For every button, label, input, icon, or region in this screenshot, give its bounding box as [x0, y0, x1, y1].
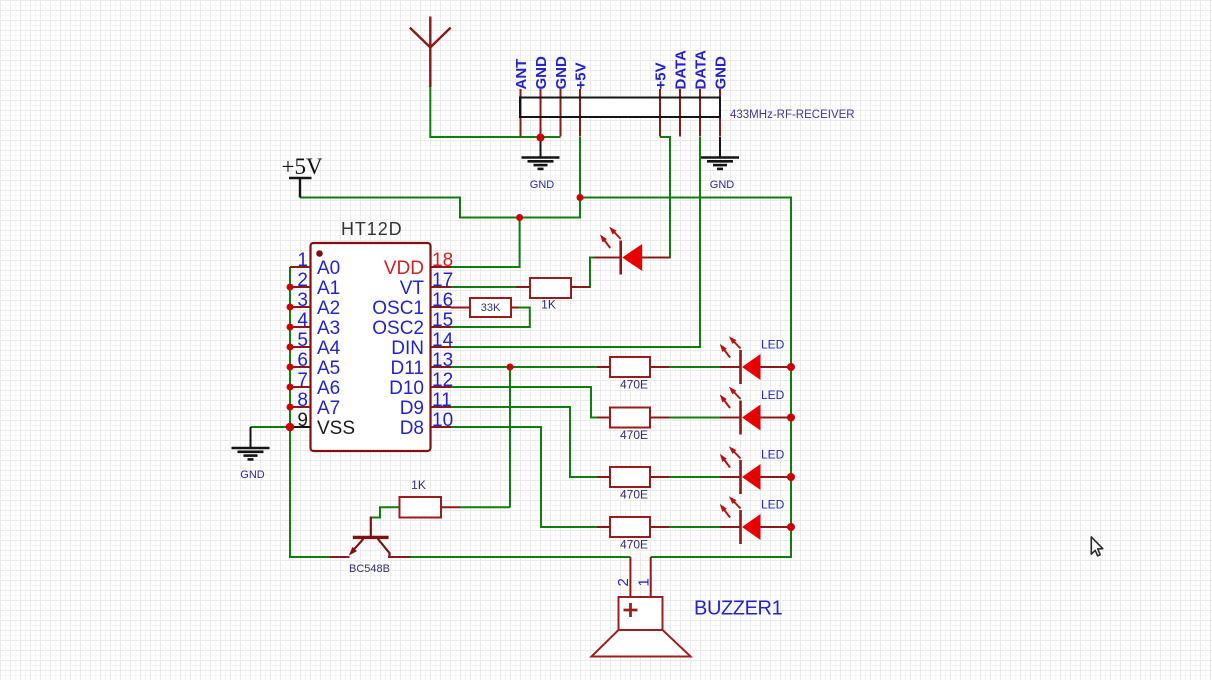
resistor 470E row2 leads	[597, 417, 669, 419]
IC pin-1 mark	[316, 250, 323, 257]
receiver pin GND	[560, 89, 562, 137]
pin 11 stub	[431, 406, 452, 408]
svg-text:470E: 470E	[620, 538, 648, 552]
svg-text:HT12D: HT12D	[341, 219, 403, 239]
wire receiver DATA down to DIN pin 14	[451, 137, 700, 347]
svg-text:A6: A6	[317, 378, 340, 399]
RF receiver module body fill	[520, 98, 720, 118]
receiver pin DATA	[679, 89, 681, 137]
pin 13 stub	[431, 366, 452, 368]
buzzer pin 2	[629, 557, 631, 597]
junction dot	[287, 324, 294, 331]
svg-text:VSS: VSS	[317, 418, 355, 439]
resistor 470E row1	[610, 357, 650, 377]
svg-text:LED: LED	[761, 338, 785, 352]
receiver pin ANT	[520, 89, 522, 137]
wire 470E row3 to LED cathode	[650, 476, 741, 478]
svg-text:LED: LED	[761, 498, 785, 512]
svg-text:8: 8	[297, 390, 308, 411]
resistor 470E row4	[610, 517, 650, 537]
svg-text:13: 13	[432, 350, 453, 371]
junction dot	[287, 364, 294, 371]
junction dot	[287, 284, 294, 291]
pin 15 stub	[431, 326, 452, 328]
wire 1K to LED cathode	[571, 258, 621, 288]
receiver pin GND	[719, 89, 721, 137]
svg-text:470E: 470E	[620, 428, 648, 442]
svg-text:+5V: +5V	[573, 62, 590, 89]
junction dot	[787, 523, 795, 531]
receiver pin +5V	[659, 89, 661, 137]
svg-text:2: 2	[615, 578, 632, 586]
svg-text:VDD: VDD	[384, 258, 424, 279]
svg-text:VT: VT	[400, 278, 425, 299]
svg-text:A1: A1	[317, 278, 340, 299]
junction dot	[286, 423, 295, 432]
svg-text:11: 11	[432, 390, 452, 411]
svg-text:3: 3	[297, 290, 308, 311]
wire D10 pin 12 to 470E row2	[451, 387, 610, 418]
svg-text:GND: GND	[530, 179, 555, 191]
svg-text:A7: A7	[317, 398, 340, 419]
svg-text:GND: GND	[553, 56, 570, 90]
pin 9 stub	[290, 426, 311, 428]
svg-text:A4: A4	[317, 338, 341, 359]
svg-text:OSC2: OSC2	[372, 318, 424, 339]
pin 14 stub	[431, 346, 452, 348]
resistor 1K (VT)	[530, 278, 571, 298]
wire 33K to OSC2 pin 15	[451, 308, 530, 328]
svg-text:GND: GND	[533, 56, 550, 90]
svg-text:470E: 470E	[620, 378, 648, 392]
receiver pin +5V	[579, 89, 581, 137]
junction dot	[287, 304, 294, 311]
junction dot	[577, 194, 584, 201]
svg-text:5: 5	[297, 330, 308, 351]
antenna	[410, 17, 451, 88]
wire collector to buzzer pin 2	[410, 556, 630, 558]
svg-text:4: 4	[297, 310, 308, 331]
wire 470E row2 to LED cathode	[650, 417, 741, 419]
junction dot	[287, 384, 294, 391]
svg-text:GND: GND	[713, 56, 730, 90]
svg-text:33K: 33K	[481, 302, 501, 314]
wire VT pin 17 to resistor 1K	[451, 286, 530, 288]
resistor 1K (base)	[400, 497, 442, 518]
ground GND (VSS)	[250, 427, 252, 448]
svg-text:A0: A0	[317, 258, 340, 279]
pin 7 stub	[290, 386, 311, 388]
wire D8 pin 10 to 470E row4	[451, 427, 610, 527]
svg-text:470E: 470E	[620, 488, 648, 502]
svg-text:D8: D8	[400, 418, 424, 439]
svg-text:DIN: DIN	[391, 338, 424, 359]
receiver pin GND	[540, 89, 542, 137]
LED row1	[720, 336, 791, 384]
svg-text:BUZZER1: BUZZER1	[694, 598, 783, 620]
buzzer BUZZER1 body	[619, 597, 663, 630]
pin 4 stub	[290, 326, 311, 328]
svg-text:12: 12	[432, 370, 453, 391]
svg-text:D10: D10	[389, 378, 424, 399]
resistor 470E row4 leads	[597, 526, 669, 528]
resistor 470E row3 leads	[597, 476, 669, 478]
junction dot	[287, 344, 294, 351]
svg-text:ANT: ANT	[513, 59, 530, 90]
svg-text:A3: A3	[317, 318, 340, 339]
LED row4	[720, 496, 791, 544]
ground GND (below receiver right)	[719, 137, 721, 157]
receiver pin DATA	[699, 89, 701, 137]
wire 470E row1 to LED cathode	[650, 366, 741, 368]
pin 12 stub	[431, 386, 452, 388]
svg-text:GND: GND	[710, 179, 735, 191]
resistor 470E row3	[610, 467, 650, 487]
svg-text:D11: D11	[391, 358, 424, 379]
svg-text:1K: 1K	[541, 298, 556, 312]
junction dot	[787, 414, 795, 422]
svg-text:1: 1	[635, 578, 652, 586]
svg-text:DATA: DATA	[673, 50, 690, 90]
svg-text:LED: LED	[761, 388, 785, 402]
svg-text:GND: GND	[240, 469, 265, 481]
wire D11 junction down to base resistor 1K	[459, 367, 510, 507]
resistor 470E row1 leads	[597, 366, 669, 368]
LED D1 (VT indicator)	[594, 227, 671, 275]
IC U1 HT12D body	[311, 243, 431, 451]
junction dot	[516, 214, 523, 221]
LED row2	[720, 387, 791, 435]
resistor 33K	[470, 298, 511, 317]
wire antenna to ANT pin	[430, 87, 560, 137]
svg-text:7: 7	[297, 370, 308, 391]
pin 17 stub	[431, 286, 452, 288]
pin 5 stub	[290, 346, 311, 348]
ground GND (below receiver left)	[540, 141, 542, 157]
resistor 1K (base) lead	[441, 506, 460, 508]
svg-text:2: 2	[297, 270, 308, 291]
svg-text:1K: 1K	[411, 478, 426, 492]
wire VSS pin 9 to ground	[251, 426, 291, 428]
wire +5V symbol to receiver +5V pin	[300, 137, 580, 218]
junction dot	[537, 134, 545, 142]
svg-text:+5V: +5V	[653, 62, 670, 89]
svg-text:433MHz-RF-RECEIVER: 433MHz-RF-RECEIVER	[730, 109, 855, 121]
svg-text:OSC1: OSC1	[372, 298, 424, 319]
svg-text:15: 15	[432, 310, 453, 331]
wire +5V branch to right rail	[580, 198, 791, 558]
resistor 470E row2	[610, 408, 650, 428]
svg-text:9: 9	[297, 410, 308, 431]
pin 16 stub	[431, 306, 452, 308]
svg-text:18: 18	[432, 250, 453, 271]
LED row3	[720, 446, 791, 494]
buzzer pin 1	[650, 557, 652, 597]
wire D11 pin 13 to resistor 470E row1	[451, 366, 610, 368]
pin 2 stub	[290, 286, 311, 288]
pin 6 stub	[290, 366, 311, 368]
svg-text:DATA: DATA	[693, 50, 710, 90]
mouse cursor	[1091, 537, 1103, 556]
svg-text:1: 1	[297, 250, 308, 271]
resistor 33K lead	[451, 307, 519, 309]
pin 8 stub	[290, 406, 311, 408]
buzzer plus mark	[624, 603, 638, 617]
wire transistor base to 1K	[371, 507, 400, 517]
pin 1 stub	[290, 266, 311, 268]
pin 18 stub	[431, 266, 452, 268]
pin 3 stub	[290, 306, 311, 308]
svg-text:16: 16	[432, 290, 453, 311]
svg-text:BC548B: BC548B	[349, 563, 390, 575]
svg-text:A2: A2	[317, 298, 340, 319]
junction dot	[787, 363, 795, 371]
svg-text:14: 14	[432, 330, 454, 351]
svg-text:A5: A5	[317, 358, 340, 379]
pin 10 stub	[431, 426, 452, 428]
svg-text:+5V: +5V	[282, 154, 323, 179]
wire D9 pin 11 to 470E row3	[451, 407, 610, 477]
svg-text:10: 10	[432, 410, 453, 431]
junction dot	[787, 473, 795, 481]
svg-text:17: 17	[432, 270, 453, 291]
transistor Q1 BC548B	[330, 517, 410, 558]
junction dot	[287, 404, 294, 411]
wire receiver +5V(2) down to LED anode	[660, 137, 670, 258]
svg-text:D9: D9	[400, 398, 424, 419]
junction dot	[507, 364, 514, 371]
resistor 1K (VT) leads	[516, 286, 590, 288]
wire +5V junction down to VDD pin 18	[451, 218, 520, 268]
svg-text:LED: LED	[761, 448, 785, 462]
svg-text:6: 6	[297, 350, 308, 371]
power +5V	[289, 178, 312, 198]
wire 470E row4 to LED cathode	[650, 526, 741, 528]
receiver module outline	[520, 98, 720, 118]
wire left pin tie rail	[290, 267, 330, 557]
